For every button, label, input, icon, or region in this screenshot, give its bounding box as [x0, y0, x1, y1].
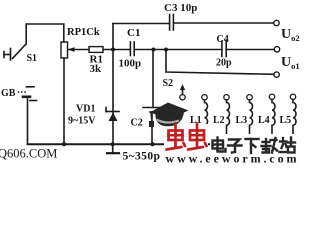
inductor L4 — [272, 100, 275, 145]
RP wiper arrow — [68, 47, 89, 52]
capacitor C4 — [222, 41, 226, 57]
variable capacitor C2 — [143, 50, 162, 145]
capacitor C1 — [130, 42, 134, 56]
svg-text:L2: L2 — [213, 115, 225, 126]
svg-text:C4: C4 — [217, 34, 229, 45]
svg-text:L5: L5 — [280, 115, 292, 126]
wire C3 to Uo2 terminal — [174, 22, 274, 24]
svg-text:3k: 3k — [90, 63, 103, 75]
dian — [213, 138, 226, 152]
svg-text:GB: GB — [1, 88, 16, 99]
node junction C2 tap — [152, 48, 156, 52]
ground mark for C2 rotor — [107, 145, 119, 153]
svg-text:C3 10p: C3 10p — [164, 2, 197, 14]
node junction VD1-bottom — [111, 142, 115, 146]
watermark cap logo — [149, 103, 189, 128]
svg-text:www.eeworm.com: www.eeworm.com — [166, 152, 300, 165]
svg-text:C2: C2 — [131, 118, 143, 129]
node junction S2/output tap — [164, 48, 168, 52]
battery GB — [18, 87, 37, 101]
terminal Uo1 — [274, 47, 279, 52]
svg-text:RP1Ck: RP1Ck — [67, 27, 100, 38]
watermark text dianzixiazaizhan (dark) — [213, 138, 296, 154]
terminal common — [274, 72, 279, 77]
resistor R1 body — [89, 47, 103, 53]
capacitor C3 — [170, 15, 174, 31]
S2 contact 2 — [224, 95, 229, 100]
svg-text:5~350p: 5~350p — [123, 151, 161, 163]
watermark text chongchong (red) — [167, 124, 207, 150]
S2 contact 1 — [202, 95, 207, 100]
wire top-left from S1 to RP corner — [26, 24, 64, 44]
xia — [246, 139, 259, 153]
zi — [228, 140, 242, 153]
svg-text:C1: C1 — [127, 27, 140, 39]
wire C3 rail — [113, 23, 169, 25]
wire RP down to bottom rail — [63, 58, 65, 144]
node junction R1/C1/VD1 — [111, 48, 115, 52]
wire lower output to common terminal — [166, 50, 274, 75]
wire battery minus down to bottom rail — [27, 99, 29, 144]
zhan — [280, 138, 296, 153]
inductor L1 — [205, 100, 208, 144]
node junction RP-bottom — [62, 142, 66, 146]
zai — [262, 138, 278, 153]
watermark backing — [164, 124, 208, 152]
svg-text:S2: S2 — [163, 78, 174, 89]
S2 contact 4 — [269, 94, 274, 99]
rotary switch S2 wiper — [180, 84, 185, 100]
wire bottom rail — [28, 143, 294, 145]
svg-text:L4: L4 — [258, 115, 270, 126]
svg-text:VD1: VD1 — [76, 104, 95, 115]
svg-text:L3: L3 — [236, 115, 248, 126]
inductor L3 — [250, 100, 253, 144]
S2 contact 5 — [290, 94, 295, 99]
wire C4 to Uo1 terminal — [226, 49, 273, 51]
wire node up to C3 rail — [112, 24, 114, 50]
zener diode VD1 — [106, 108, 119, 122]
inductor L5 — [293, 100, 296, 145]
svg-text:100p: 100p — [119, 58, 142, 70]
wire R1 to C1 — [103, 49, 130, 51]
svg-text:Q606.COM: Q606.COM — [0, 147, 57, 161]
inductor L2 — [227, 100, 230, 144]
svg-text:S1: S1 — [27, 53, 38, 64]
svg-text:9~15V: 9~15V — [68, 116, 96, 127]
S2 contact 3 — [247, 95, 252, 100]
terminal Uo2 — [274, 20, 279, 25]
node junction C2-bottom — [150, 142, 154, 146]
potentiometer RP body — [61, 42, 68, 58]
wire node down through VD1 to bottom rail — [112, 50, 114, 145]
wire C1 to C4 — [134, 49, 222, 51]
switch S1 — [4, 44, 26, 60]
svg-text:20p: 20p — [216, 58, 232, 69]
